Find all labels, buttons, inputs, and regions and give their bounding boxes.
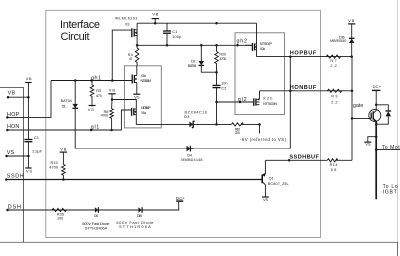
gate-driver IC outline (left, partial) [0, 87, 24, 242]
svg-text:VB: VB [348, 18, 354, 23]
wire SSDHBUF [265, 159, 327, 161]
supply VB with resistor R15 [60, 152, 67, 179]
Interface Circuit box [46, 10, 321, 237]
diode D1 BAT54 [72, 104, 78, 108]
wire gate tap to IGBT [352, 117, 369, 119]
svg-text:VB: VB [26, 76, 32, 81]
svg-text:4700: 4700 [49, 165, 58, 169]
svg-text:D19: D19 [137, 214, 142, 218]
svg-text:X1b: X1b [141, 74, 147, 78]
svg-text:IRLML6203: IRLML6203 [115, 16, 138, 20]
wire X2b source stub to -6V [259, 124, 261, 133]
svg-text:X2b: X2b [263, 96, 272, 100]
DC+ pad (bottom, after D19) [176, 200, 183, 201]
svg-text:2.2: 2.2 [331, 101, 337, 105]
svg-text:10n: 10n [221, 82, 227, 86]
node DSH pin dot [6, 209, 9, 212]
X2 block box [235, 33, 285, 115]
svg-text:2.2: 2.2 [330, 64, 336, 68]
svg-text:NT7603N: NT7603N [263, 102, 277, 106]
svg-text:VB: VB [152, 12, 158, 17]
node gray-loop top dot [289, 55, 292, 58]
supply VB stem (top) [154, 19, 156, 24]
transistor X1b NT7603M [132, 66, 137, 94]
IGBT Q2 (in circle) [369, 109, 381, 199]
wire DSH pin through R36 D6 D19 to DC+ [8, 202, 179, 211]
node R9/gate-line dot [351, 90, 354, 93]
svg-text:BAT54: BAT54 [188, 64, 197, 68]
node HOP pin dot [6, 116, 8, 119]
zener diode D3 BZX84C16 [189, 121, 194, 128]
svg-text:STTH1R06A: STTH1R06A [85, 225, 108, 230]
svg-text:NT7603M: NT7603M [141, 79, 152, 83]
node X2b source dot [258, 123, 261, 126]
resistor R7 [326, 55, 340, 58]
resistor R9 [327, 89, 341, 92]
supply VB bar (middle) [108, 93, 115, 95]
wire HOP pin to riser [7, 81, 51, 118]
node VB local / R8 top dot [111, 98, 114, 101]
svg-text:Interface: Interface [60, 19, 100, 31]
supply VB bar (left bootstrap) [25, 82, 31, 84]
node IGBT collector/diode dot [375, 104, 378, 107]
svg-text:100: 100 [57, 216, 63, 220]
svg-text:-6V (referred to VS): -6V (referred to VS) [240, 137, 287, 142]
node D16/gate-line dot [350, 55, 353, 58]
wire gh1 drop to D1 [74, 81, 76, 104]
node gl1 label dot [90, 129, 93, 132]
node R8 bottom dot [110, 129, 113, 132]
svg-text:4700: 4700 [219, 57, 226, 61]
svg-text:C2: C2 [221, 87, 226, 91]
ground VS bar under C3 [25, 167, 31, 169]
svg-text:VB: VB [60, 146, 67, 151]
node C1 bottom dot [166, 44, 169, 47]
diode D2 BAT54 [199, 45, 217, 72]
node gate tap dot [351, 117, 354, 120]
supply VB bar (top) [152, 18, 159, 20]
svg-text:X1a: X1a [141, 111, 147, 115]
svg-text:R15: R15 [51, 161, 58, 165]
svg-text:NT7600P: NT7600P [260, 42, 273, 46]
diode D19 STTH1R06A [138, 207, 142, 213]
svg-text:DC+: DC+ [176, 196, 186, 201]
resistor R8 [110, 100, 114, 131]
svg-text:2.2µF: 2.2µF [32, 150, 42, 154]
wire SSDH pin to Q1 base [6, 179, 261, 181]
transistor X1a NT7600P [132, 104, 137, 116]
node gl2 column dot [215, 101, 218, 104]
svg-text:47: 47 [129, 57, 133, 61]
svg-text:SSDHBUF: SSDHBUF [289, 155, 319, 161]
svg-text:4700: 4700 [101, 114, 109, 118]
svg-text:R5: R5 [96, 89, 101, 93]
svg-text:VS: VS [26, 168, 32, 173]
diode D16 MBR0540 [349, 24, 355, 57]
svg-text:R9: R9 [331, 95, 337, 99]
supply VB bootstrap riser with C3 [27, 83, 29, 140]
wire HONBUF [260, 90, 354, 92]
node HON pin dot [6, 129, 8, 132]
wire VB local to X1a drain [112, 100, 136, 105]
wire D1 cathode down to D4 run [74, 109, 76, 149]
svg-text:DSH: DSH [8, 205, 22, 211]
svg-text:gl2: gl2 [238, 97, 247, 103]
wire riser D4 run to HOPBUF [289, 57, 291, 149]
svg-text:MBR0540: MBR0540 [330, 39, 346, 43]
DC- bottom rail [0, 242, 398, 256]
svg-text:X2a: X2a [260, 47, 266, 51]
svg-text:C3: C3 [34, 136, 39, 140]
svg-text:R7: R7 [330, 59, 336, 63]
svg-text:HOP: HOP [7, 112, 20, 118]
wire To Motor tap [375, 148, 400, 151]
svg-text:Q1: Q1 [269, 176, 274, 180]
svg-text:VS: VS [88, 107, 94, 112]
node R20 column dot [215, 44, 218, 47]
svg-text:To Mot: To Mot [382, 145, 400, 151]
svg-text:gl1: gl1 [91, 124, 100, 130]
svg-text:100p: 100p [172, 35, 181, 39]
wire HON pin to gl1 riser [7, 110, 131, 130]
svg-text:HONBUF: HONBUF [290, 85, 317, 91]
svg-text:C1: C1 [172, 30, 177, 34]
transistor X3 IRLML6203 (P-MOSFET top) [112, 23, 137, 80]
svg-text:IGBT: IGBT [383, 189, 397, 195]
node D2 anode dot [200, 44, 203, 47]
node VB pin dot [7, 96, 10, 99]
svg-text:NT7600P: NT7600P [141, 106, 151, 110]
node VB stem dot on rail [154, 22, 157, 25]
node C2 column dot on rail [215, 22, 218, 25]
svg-text:MMBD4148: MMBD4148 [181, 158, 202, 162]
wire HOPBUF [257, 56, 353, 58]
svg-text:D6: D6 [94, 214, 99, 218]
svg-text:gh2: gh2 [237, 39, 248, 45]
transistor Q1 BC807_25L (PNP) [262, 160, 266, 196]
svg-text:DC+: DC+ [373, 84, 382, 89]
svg-text:R14: R14 [330, 163, 338, 167]
resistor R36 [52, 208, 66, 211]
wire gate vertical line [351, 57, 353, 161]
capacitor C3 [24, 139, 32, 141]
node gl2 label dot [239, 101, 242, 104]
resistor R5 [89, 81, 96, 107]
ground VS tap near IGBT [364, 135, 377, 142]
ground VS bar (X1b source) [133, 93, 140, 95]
supply VB bar (above D16) [348, 23, 355, 25]
resistor R14 [327, 159, 338, 162]
node gh1 label dot [90, 79, 93, 82]
svg-text:VS: VS [263, 197, 269, 202]
svg-text:VB: VB [8, 91, 16, 97]
node C2 column bottom dot [215, 123, 218, 126]
transistor X2b NT7603N [254, 91, 260, 106]
wire D4 run left segment [75, 148, 186, 150]
diode D6 STTH1R06A [95, 207, 99, 213]
node C3/VS junction dot [27, 155, 30, 158]
node gh1 loop tap dot [74, 79, 77, 82]
svg-text:VB: VB [109, 88, 116, 93]
resistor R10 [232, 123, 244, 126]
svg-text:BAT54: BAT54 [61, 99, 72, 103]
wire gl2 (C2 column to X2b gate) [217, 101, 254, 103]
svg-text:X3: X3 [125, 22, 130, 26]
DC+ pad (IGBT collector) [372, 90, 380, 109]
wire D4 run right segment [193, 148, 290, 150]
svg-text:HON: HON [7, 124, 19, 130]
wire X1a source / zener / R10 run [136, 116, 189, 125]
capacitor C1 [163, 23, 171, 45]
capacitor C2 [213, 72, 221, 124]
svg-text:D1: D1 [62, 105, 66, 109]
svg-text:gate: gate [353, 103, 363, 109]
resistor R4 [135, 48, 139, 66]
X1 block box [124, 66, 161, 128]
wire gh2 drive (X3 drain to X2a gate) [137, 44, 252, 46]
svg-text:STTH1R06A: STTH1R06A [119, 224, 151, 229]
wire VB pin to bootstrap line [8, 96, 28, 98]
wire gh1 net (HOP drive) [51, 80, 132, 82]
svg-text:VS: VS [134, 94, 140, 99]
node R15 bottom dot [62, 178, 65, 181]
svg-text:VS: VS [7, 150, 15, 156]
svg-text:D2: D2 [191, 59, 196, 63]
svg-text:D3: D3 [184, 115, 189, 119]
svg-text:HOPBUF: HOPBUF [290, 51, 317, 57]
transistor X2a NT7600P [245, 23, 257, 56]
diode D4 MMBD4148 [187, 146, 194, 152]
svg-text:68: 68 [331, 168, 337, 172]
node gray-loop crossing dot [289, 90, 292, 93]
freewheel diode (across IGBT) [376, 105, 391, 124]
svg-text:SSDH: SSDH [7, 174, 24, 180]
node IGBT emitter/diode dot [375, 123, 378, 126]
svg-text:220: 220 [235, 131, 240, 135]
resistor R20 [215, 45, 219, 73]
svg-text:470: 470 [96, 94, 102, 98]
ground VS bar (Q1 emitter) [262, 196, 269, 198]
node SSDH pin dot [5, 178, 8, 181]
node SSDHBUF label dot [288, 159, 291, 162]
top VB rail [137, 22, 256, 24]
node X3 drain / R4 dot [136, 44, 139, 47]
svg-text:BZX84C16: BZX84C16 [185, 110, 208, 114]
page border (right) [397, 0, 399, 256]
wire VS pin to C3 [7, 155, 29, 157]
svg-text:D4: D4 [187, 154, 192, 158]
node VB/C3 junction dot [27, 96, 30, 99]
svg-text:BC807_25L: BC807_25L [268, 182, 289, 186]
svg-text:VS: VS [365, 142, 371, 147]
node X3 gate riser dot [111, 79, 114, 82]
node VS pin dot [5, 155, 8, 158]
svg-text:Circuit: Circuit [61, 31, 90, 43]
node gh2 label dot [236, 44, 239, 47]
svg-text:gh1: gh1 [91, 76, 101, 82]
